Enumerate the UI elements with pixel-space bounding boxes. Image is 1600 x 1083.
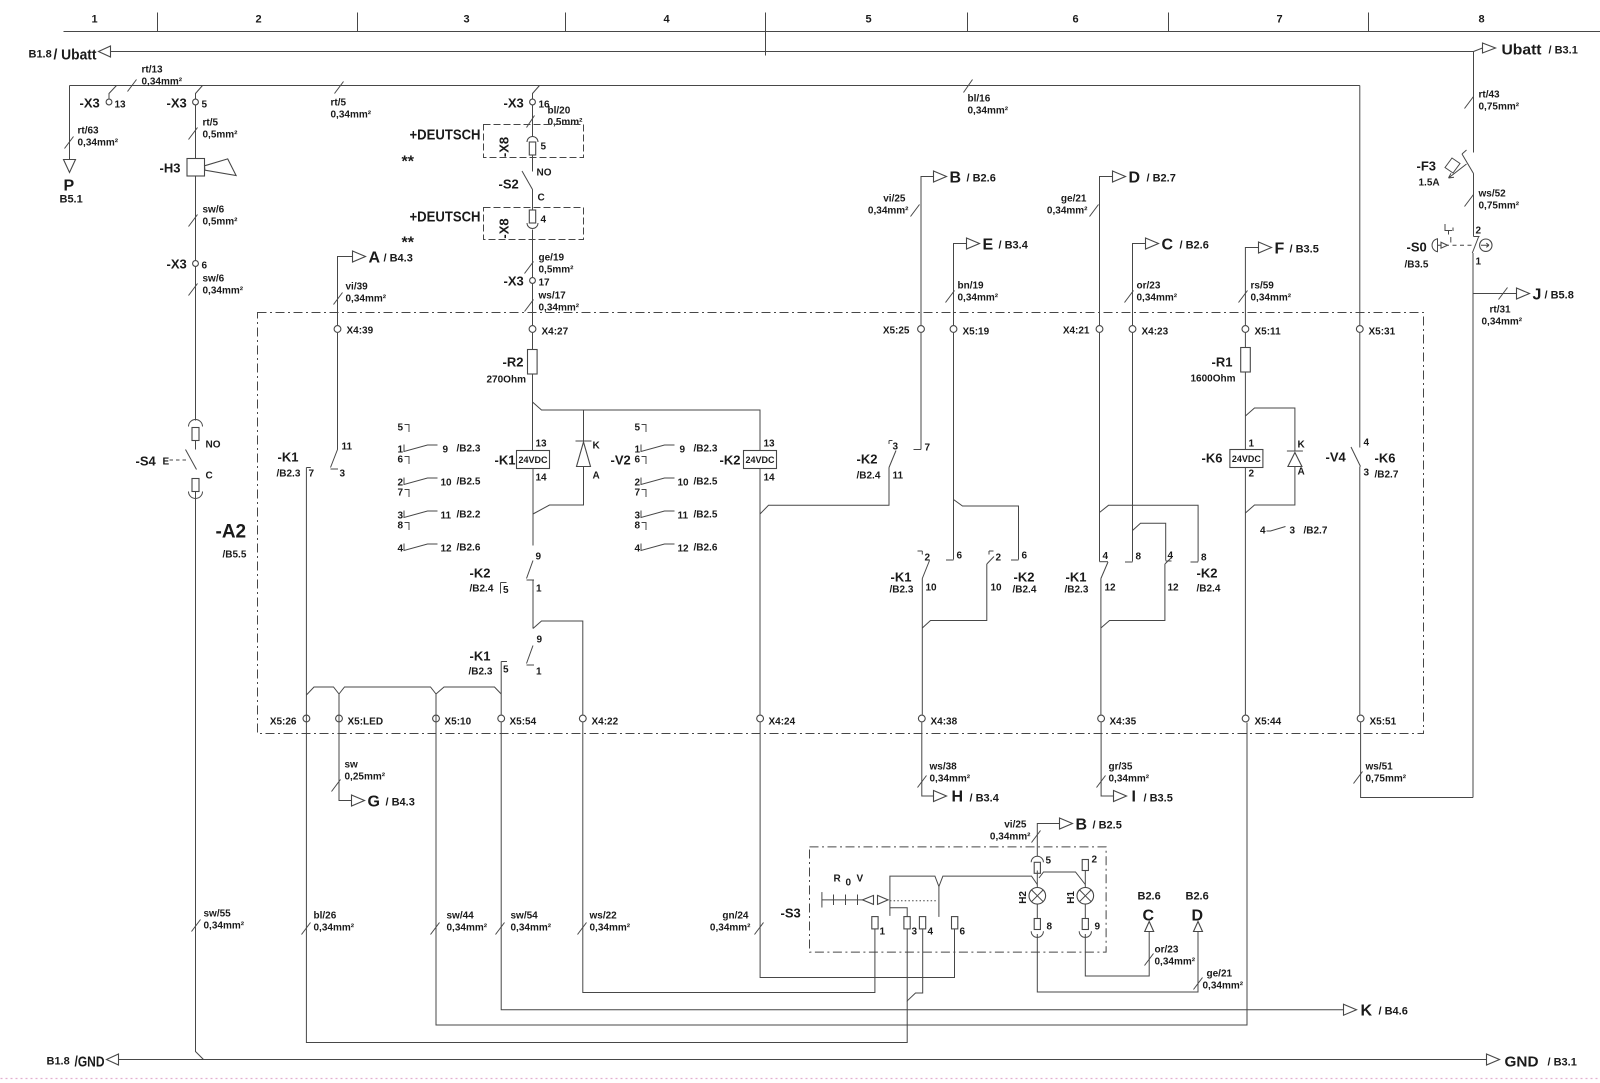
svg-text:-K2: -K2 [857,452,878,467]
svg-text:3: 3 [1290,526,1296,537]
svg-text:/ B3.1: / B3.1 [1548,1057,1577,1069]
svg-text:/B2.4: /B2.4 [470,584,494,595]
svg-text:5: 5 [202,100,208,111]
svg-text:-K6: -K6 [1202,451,1223,466]
wire diode anode loop [1245,467,1295,514]
svg-text:/B2.5: /B2.5 [457,477,481,488]
svg-text:12: 12 [678,544,690,555]
wire F3 to S0 [1473,174,1475,237]
wire X5:54 upper stub with bracket 5 [501,662,507,715]
svg-text:0,34mm²: 0,34mm² [1203,981,1244,992]
wire Ubatt to right arrow [1474,48,1483,52]
svg-text:5: 5 [541,142,547,153]
svg-text:-K2: -K2 [1014,570,1035,585]
svg-text:1: 1 [536,584,542,595]
arrow D up [1194,922,1203,932]
svg-text:4: 4 [635,544,641,555]
svg-text:vi/25: vi/25 [1004,820,1027,831]
svg-text:X4:38: X4:38 [931,717,958,728]
svg-text:14: 14 [764,473,776,484]
svg-text:1: 1 [536,667,542,678]
ruler tick 2|3 [357,13,359,32]
wire X5:51 to S0 net [1361,723,1473,798]
arrow E / B3.4 [954,244,967,326]
terminal X4:35 [1098,715,1105,722]
ruler tick 6|7 [1168,13,1170,32]
wire X4:23 down [1132,333,1134,562]
arrow C / B2.6 [1133,244,1146,326]
svg-text:0,5mm²: 0,5mm² [203,130,239,141]
svg-text:X5:19: X5:19 [963,327,990,338]
arrow A / B4.3 [338,257,353,326]
svg-text:sw/44: sw/44 [447,911,475,922]
svg-text:14: 14 [536,473,548,484]
svg-text:/B2.4: /B2.4 [857,471,881,482]
wire X5:19 down [953,333,955,560]
terminal X4:23 [1129,326,1136,333]
svg-text:B1.8: B1.8 [29,49,52,61]
svg-text:0,34mm²: 0,34mm² [314,923,355,934]
lamp H2 [1036,871,1038,888]
contact cross-reference table K2 [635,423,718,555]
svg-text:0,34mm²: 0,34mm² [1047,206,1088,217]
wire to second contact [532,581,534,629]
svg-text:7: 7 [635,488,641,499]
svg-text:X5:25: X5:25 [883,326,910,337]
arrow C up [1145,922,1154,932]
svg-text:-K1: -K1 [495,453,516,468]
svg-text:ws/52: ws/52 [1478,189,1507,200]
svg-text:8: 8 [1201,553,1207,564]
svg-text:gr/35: gr/35 [1109,762,1133,773]
svg-text:or/23: or/23 [1155,945,1179,956]
svg-text:-K1: -K1 [891,570,912,585]
ruler tick 7|8 [1368,13,1370,32]
horn H3 [187,159,205,177]
svg-text:or/23: or/23 [1137,281,1161,292]
svg-text:/ B3.4: / B3.4 [999,240,1029,252]
ruler tick 1|2 [157,13,159,32]
svg-text:rt/5: rt/5 [331,98,347,109]
svg-text:A: A [369,250,381,267]
wire X5:25 lower with tick 7 [920,333,922,450]
svg-text:+DEUTSCH: +DEUTSCH [410,209,481,226]
svg-text:gn/24: gn/24 [722,911,749,922]
svg-text:11: 11 [678,511,689,522]
svg-text:0,5mm²: 0,5mm² [548,117,584,128]
svg-text:X4:23: X4:23 [1142,327,1169,338]
wire K6 coil to X5:44 [1244,468,1246,715]
terminal X5:51 [1357,715,1364,722]
svg-text:/B2.6: /B2.6 [457,543,481,554]
terminal X5:11 [1242,326,1249,333]
wire H1 to C arrow (or/23) [1085,932,1149,977]
svg-text:-S0: -S0 [1407,240,1427,255]
svg-text:1: 1 [880,927,886,938]
svg-text:5: 5 [503,665,509,676]
svg-text:bn/19: bn/19 [958,281,985,292]
svg-text:5: 5 [1046,856,1052,867]
svg-text:-H3: -H3 [160,161,181,176]
arrow K / B4.6 [1344,1004,1357,1015]
svg-text:0,34mm²: 0,34mm² [331,110,372,121]
svg-text:sw/55: sw/55 [204,909,232,920]
svg-text:/ B4.3: / B4.3 [384,253,413,265]
svg-text:sw: sw [345,760,359,771]
svg-text:12: 12 [441,544,453,555]
contact fixed tick 6 left [946,559,954,561]
svg-text:P: P [64,178,75,195]
svg-text:2: 2 [1092,855,1098,866]
page edge dotted pink [1,1078,1600,1080]
svg-text:0,34mm²: 0,34mm² [142,77,183,88]
svg-text:3: 3 [340,469,346,480]
S3 pin 6 [952,917,958,929]
wire Ubatt drop to F3 [1473,52,1475,153]
svg-text:A: A [593,471,600,482]
svg-text:6: 6 [960,927,966,938]
terminal X4:27 [529,326,536,333]
svg-text:10: 10 [926,583,938,594]
svg-text:6: 6 [202,261,208,272]
wire H2 to D arrow (ge/21) [1037,932,1198,993]
arrow B / B2.6 [921,177,934,326]
contact cross-reference table K1 [398,423,481,555]
ruler tick 3|4 [565,13,567,32]
svg-text:0,34mm²: 0,34mm² [590,923,631,934]
svg-text:X5:51: X5:51 [1370,717,1397,728]
svg-text:0,34mm²: 0,34mm² [1155,957,1196,968]
ruler tick 4|5 [765,13,767,56]
svg-text:/ B5.8: / B5.8 [1545,290,1574,302]
svg-text:X5:26: X5:26 [270,717,297,728]
wire R1 to K6 coil [1244,372,1246,450]
wire connector5 to B arrow [1037,824,1059,857]
wire X5:31 top [1359,86,1361,326]
wire S0 down to ws51 loop [1472,253,1474,798]
svg-text:/ B3.5: / B3.5 [1290,244,1319,256]
wire V2 anode loop [533,467,584,515]
svg-text:-A2: -A2 [216,522,247,543]
svg-text:11: 11 [441,511,452,522]
svg-text:-X8: -X8 [497,137,512,157]
svg-text:E: E [983,237,994,254]
svg-text:X5:31: X5:31 [1369,327,1396,338]
svg-text:4: 4 [664,14,671,26]
potentiometer scale [822,899,863,901]
svg-text:0,34mm²: 0,34mm² [1137,293,1178,304]
svg-text:/ B2.5: / B2.5 [1093,820,1122,832]
svg-text:X5:LED: X5:LED [348,717,384,728]
svg-text:0,34mm²: 0,34mm² [990,832,1031,843]
svg-text:sw/6: sw/6 [203,205,225,216]
resistor -R2 270Ohm [532,333,534,350]
svg-text:sw/54: sw/54 [511,911,539,922]
svg-text:7: 7 [398,488,404,499]
svg-text:ws/17: ws/17 [538,291,567,302]
terminal X5:19 [950,326,957,333]
svg-text:13: 13 [764,439,776,450]
svg-text:10: 10 [991,583,1003,594]
svg-text:NO: NO [537,168,552,179]
wire X5:10 to X5:44 (sw/44) [436,694,1247,1025]
svg-text:/GND: /GND [75,1054,105,1071]
svg-text:/ B3.1: / B3.1 [1549,45,1578,57]
svg-text:2: 2 [1249,469,1255,480]
svg-text:0,34mm²: 0,34mm² [968,106,1009,117]
svg-text:C: C [206,471,213,482]
svg-text:2: 2 [925,553,931,564]
svg-text:0,34mm²: 0,34mm² [447,923,488,934]
svg-text:9: 9 [536,552,542,563]
svg-text:bl/16: bl/16 [968,94,991,105]
wire contact K1 to X4:38 [921,579,923,715]
svg-text:270Ohm: 270Ohm [487,375,527,386]
wire Ubatt bus [111,51,1474,53]
arrow F / B3.5 [1245,248,1258,326]
svg-text:/ B4.6: / B4.6 [1379,1006,1408,1018]
svg-text:/ Ubatt: / Ubatt [54,47,97,64]
svg-text:2: 2 [996,553,1002,564]
terminal -X3:17 [530,278,536,284]
svg-text:ge/21: ge/21 [1207,969,1233,980]
svg-text:0,5mm²: 0,5mm² [539,265,575,276]
svg-text:/ B2.6: / B2.6 [1180,240,1209,252]
switch -V4 [1359,333,1361,448]
svg-text:4: 4 [398,544,404,555]
svg-text:10: 10 [441,478,453,489]
switch -S4 [195,441,197,450]
wire branch X4:21 to right tick 8 [1100,505,1199,561]
terminal X4:38 [918,715,925,722]
lamp connector 5 [1031,856,1043,862]
wire branch to K6 diode [1245,408,1295,451]
svg-text:9: 9 [537,635,543,646]
svg-text:0,34mm²: 0,34mm² [539,303,580,314]
contact -K2 2/10 [987,557,994,565]
svg-text:C: C [1143,908,1155,925]
svg-text:ge/21: ge/21 [1061,194,1087,205]
svg-text:H1: H1 [1066,891,1077,904]
wire S2 to X8:4 [532,190,534,211]
svg-text:-X3: -X3 [504,96,524,111]
svg-text:bl/26: bl/26 [314,911,337,922]
wire X8:5 to S2 [532,155,534,172]
arrow Ubatt incoming left [99,46,111,57]
svg-text:-R1: -R1 [1212,355,1233,370]
svg-text:-K1: -K1 [1066,570,1087,585]
arrow Ubatt outgoing right [1483,43,1496,53]
wire S3 pins 3+4 join [907,929,922,1001]
terminal X5:44 [1242,715,1249,722]
svg-text:0: 0 [846,878,852,889]
svg-text:/ B3.4: / B3.4 [970,793,1000,805]
svg-text:1: 1 [92,14,98,26]
svg-text:**: ** [402,235,415,252]
svg-text:/B2.3: /B2.3 [277,469,301,480]
ruler tick 5|6 [967,13,969,32]
svg-text:rs/59: rs/59 [1251,281,1275,292]
contact -K1 11/3 (X4:39 column) [337,333,339,450]
svg-text:/B2.7: /B2.7 [1375,470,1399,481]
wire branch X5:19 to right contact [954,500,1019,560]
connector pin X8:4 [529,210,535,223]
svg-text:0,75mm²: 0,75mm² [1479,102,1520,113]
svg-text:B2.6: B2.6 [1138,891,1161,903]
svg-text:-X3: -X3 [80,96,100,111]
svg-text:5: 5 [866,14,872,26]
svg-text:GND: GND [1505,1054,1539,1071]
wire contact to X4:35 [1100,579,1102,715]
svg-text:-K2: -K2 [1197,566,1218,581]
wire X8:4 to X3:17 [532,230,534,278]
svg-text:8: 8 [1047,922,1053,933]
S3 pin 3 [904,917,910,929]
svg-text:0,34mm²: 0,34mm² [1251,293,1292,304]
lamp connector 9 [1084,904,1086,918]
svg-text:X4:21: X4:21 [1063,326,1090,337]
connector pin X8:5 [527,137,538,143]
wire X4:21 down [1099,333,1101,562]
svg-text:sw/6: sw/6 [203,274,225,285]
svg-text:2: 2 [256,14,262,26]
svg-text:F: F [1275,241,1285,258]
svg-text:B1.8: B1.8 [47,1056,70,1068]
svg-text:R: R [834,874,842,885]
svg-text:K: K [1361,1003,1373,1020]
svg-text:11: 11 [893,471,904,482]
svg-text:24VDC: 24VDC [1232,454,1262,464]
svg-text:5: 5 [398,423,404,434]
svg-text:7: 7 [309,469,315,480]
svg-text:X5:10: X5:10 [445,717,472,728]
svg-text:X4:24: X4:24 [769,717,796,728]
terminal -X3:5 [196,86,203,100]
wire bus2 [70,85,1360,87]
svg-text:B: B [950,170,962,187]
svg-text:13: 13 [115,100,127,111]
svg-text:/B2.4: /B2.4 [1197,584,1221,595]
svg-text:H2: H2 [1018,891,1029,904]
svg-text:0,75mm²: 0,75mm² [1366,774,1407,785]
svg-text:0,34mm²: 0,34mm² [710,923,751,934]
diode -V2 [583,410,585,441]
wire X3:16 to X8:5 [532,105,534,137]
svg-text:K: K [1298,440,1306,451]
wire to P [69,86,71,160]
svg-text:ws/51: ws/51 [1365,762,1394,773]
svg-text:C: C [538,193,545,204]
svg-text:8: 8 [635,521,641,532]
svg-text:6: 6 [635,455,641,466]
potentiometer -S3 body [890,876,1037,916]
terminal X4:22 [579,715,586,722]
svg-text:-S4: -S4 [136,454,157,469]
wire X4:24 to S3 pin6 (gn/24) [760,723,954,978]
svg-text:I: I [1132,789,1136,806]
svg-text:4: 4 [928,927,934,938]
wire X5:26 down to S3 pins 3/4 [306,468,907,1043]
svg-text:0,34mm²: 0,34mm² [78,138,119,149]
svg-text:7: 7 [1277,14,1283,26]
svg-text:-R2: -R2 [503,355,524,370]
wire branch K2 pin11 [760,488,889,515]
svg-text:-K2: -K2 [470,566,491,581]
svg-text:13: 13 [536,439,548,450]
svg-text:3: 3 [1364,468,1370,479]
terminal X4:39 [334,326,341,333]
svg-text:6: 6 [1073,14,1079,26]
terminal -X3:16 [533,86,540,100]
svg-text:6: 6 [957,551,963,562]
wire K1 coil down [532,469,534,546]
svg-text:5: 5 [503,585,509,596]
connector box +DEUTSCH -X8 lower [484,208,584,240]
switch -S4 connector top [189,420,203,427]
terminal X5:54 [498,715,505,722]
wire V4 to X5:51 [1359,467,1361,715]
svg-text:X5:44: X5:44 [1255,717,1282,728]
svg-text:1600Ohm: 1600Ohm [1191,374,1236,385]
contact -K1 2/10 [918,551,923,555]
resistor -R1 1600Ohm [1244,333,1246,348]
svg-text:-K6: -K6 [1375,451,1396,466]
svg-text:4: 4 [541,215,547,226]
svg-text:24VDC: 24VDC [518,455,548,465]
svg-text:NO: NO [206,440,221,451]
svg-text:-X3: -X3 [167,257,187,272]
svg-text:6: 6 [1022,551,1028,562]
svg-text:ge/19: ge/19 [539,253,565,264]
arrow D / B2.7 [1100,177,1113,326]
arrow J / B5.8 [1473,293,1517,295]
wire branch X4:23 to tick 4 [1133,523,1166,560]
wire H3 to X3:6 [195,176,197,261]
svg-text:/B2.3: /B2.3 [694,444,718,455]
contact -K2 3/11 [889,441,893,445]
svg-text:/B2.5: /B2.5 [694,477,718,488]
arrow P down [64,160,76,173]
svg-text:0,34mm²: 0,34mm² [1482,317,1523,328]
wire X5:54 to K arrow (sw/54) [501,723,1343,1010]
svg-text:5: 5 [635,423,641,434]
svg-text:1: 1 [1476,257,1482,268]
svg-text:0,34mm²: 0,34mm² [868,206,909,217]
contact -K1 4/12 [1100,561,1109,563]
svg-text:X4:22: X4:22 [592,717,619,728]
lamp connector 2 [1082,860,1088,871]
svg-text:0,34mm²: 0,34mm² [930,774,971,785]
svg-text:X4:39: X4:39 [347,326,374,337]
svg-text:17: 17 [539,278,551,289]
svg-text:-X8: -X8 [497,218,512,238]
svg-text:0,5mm²: 0,5mm² [203,217,239,228]
svg-text:4: 4 [1260,526,1266,537]
svg-text:8: 8 [1136,552,1142,563]
wire contact -K2 4/12 branch [1101,564,1165,628]
wire gooseneck X5:26-X5:LED-X5:10-X5:54 [306,687,339,695]
contact fixed tick 6 right [1011,559,1019,561]
svg-text:12: 12 [1105,583,1117,594]
svg-text:X5:11: X5:11 [1255,327,1282,338]
S3 pin 1 [872,917,878,929]
svg-text:D: D [1192,908,1204,925]
svg-text:C: C [1162,237,1174,254]
svg-text:3: 3 [464,14,470,26]
terminal X4:21 [1096,326,1103,333]
svg-text:Ubatt: Ubatt [1502,42,1542,59]
lamp connector 8 [1036,904,1038,918]
